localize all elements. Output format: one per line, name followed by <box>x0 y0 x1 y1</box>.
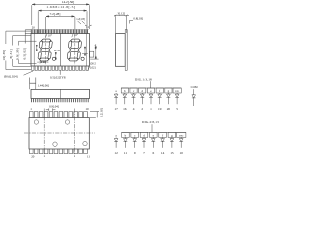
left dim 10[.39] <box>6 31 31 70</box>
svg-text:20: 20 <box>32 26 36 30</box>
digit 1 seven-segment outline <box>38 39 52 61</box>
svg-text:2: 2 <box>141 107 143 111</box>
pin detail box <box>30 78 36 84</box>
horizontal side view pin comb <box>32 99 89 103</box>
digit 1 rail <box>121 87 181 89</box>
svg-text:f: f <box>162 134 164 138</box>
svg-text:COM: COM <box>191 85 198 89</box>
digit 2 rail <box>122 131 186 133</box>
digit 1 segment boxes <box>121 88 128 93</box>
front view package body <box>31 34 90 67</box>
digit 1 centerline <box>45 35 47 65</box>
svg-text:1.2[.05]: 1.2[.05] <box>99 108 103 117</box>
svg-text:a: a <box>115 134 117 138</box>
svg-text:0.5[.02]TYP.: 0.5[.02]TYP. <box>50 75 66 79</box>
svg-text:16: 16 <box>123 107 127 111</box>
svg-text:11: 11 <box>86 25 89 29</box>
svg-text:f: f <box>159 89 161 93</box>
bottom view centerline v1 <box>43 109 45 158</box>
horizontal side view body <box>31 89 90 98</box>
svg-text:20: 20 <box>31 154 35 158</box>
bottom view bottom pin row <box>30 149 88 154</box>
dim 1.2[.05] bottom right <box>90 112 99 118</box>
dim 1.6X8=12.8[.5] pin row span <box>38 10 87 34</box>
dim arrows right of digit2 <box>84 47 85 55</box>
svg-text:a: a <box>115 89 117 93</box>
digit 2 segment boxes <box>122 132 130 137</box>
svg-text:c: c <box>134 134 136 138</box>
bottom view centerline h <box>24 132 95 134</box>
svg-text:19: 19 <box>158 107 162 111</box>
svg-text:11: 11 <box>124 151 128 155</box>
svg-text:1.2[.05]: 1.2[.05] <box>76 18 85 21</box>
svg-text:1.44[.06]: 1.44[.06] <box>38 84 49 88</box>
svg-text:e: e <box>153 134 155 138</box>
svg-text:b: b <box>125 134 127 138</box>
dim arrows near digit1 DP <box>55 52 56 59</box>
left dim 8[.31] <box>13 36 31 67</box>
right edge pin detail <box>90 51 94 57</box>
bottom view body <box>29 118 89 150</box>
horizontal side view divider <box>59 89 61 98</box>
hole bottom-right <box>83 141 87 145</box>
front view inner frame lines <box>34 34 86 67</box>
dim arrows left of digit1 <box>36 45 37 50</box>
front view center divider <box>59 34 61 67</box>
digit 1 decimal point <box>52 57 55 60</box>
front view top pin row <box>31 29 87 33</box>
svg-text:3[.12]: 3[.12] <box>117 12 125 16</box>
digit 2 segment diodes <box>114 137 183 147</box>
svg-text:d: d <box>143 134 145 138</box>
svg-text:14: 14 <box>161 151 165 155</box>
left dim 0.5[.02] <box>25 30 31 44</box>
svg-text:10: 10 <box>85 107 89 111</box>
digit 2 centerline <box>74 35 76 65</box>
svg-text:0.5[.02]: 0.5[.02] <box>23 48 27 60</box>
svg-text:17: 17 <box>114 107 118 111</box>
svg-text:DIG.1:3,18: DIG.1:3,18 <box>135 78 152 83</box>
svg-text:1: 1 <box>150 107 152 111</box>
svg-text:4: 4 <box>133 107 135 111</box>
svg-text:1.6X8=12.8[.5]: 1.6X8=12.8[.5] <box>46 5 75 9</box>
hole top-right <box>65 120 69 124</box>
digit 2 decimal point <box>81 57 84 60</box>
dim 7.2[.28] digit pitch <box>46 16 75 34</box>
hole top-left <box>34 120 38 124</box>
svg-text:9: 9 <box>134 151 136 155</box>
svg-text:20: 20 <box>167 107 171 111</box>
svg-text:7: 7 <box>143 151 145 155</box>
bottom view centerline v2 <box>73 109 75 158</box>
svg-text:Ø0.6[.024]: Ø0.6[.024] <box>4 75 18 79</box>
bottom view top pin row <box>30 112 88 118</box>
svg-text:5: 5 <box>176 107 178 111</box>
svg-text:10: 10 <box>180 151 184 155</box>
centerline dash between digits <box>54 49 60 51</box>
digit 2 seven-segment outline <box>67 39 81 61</box>
svg-text:12: 12 <box>114 151 118 155</box>
centerline dash digit2 right <box>82 53 89 55</box>
hole bottom-left <box>53 142 57 146</box>
svg-text:0.8[.03]: 0.8[.03] <box>133 16 143 20</box>
svg-text:11: 11 <box>87 154 90 158</box>
front view bottom pin row <box>32 66 89 70</box>
svg-text:10°: 10° <box>48 33 53 37</box>
svg-text:14.2[.56]: 14.2[.56] <box>62 0 74 4</box>
svg-text:b: b <box>124 89 126 93</box>
svg-text:g: g <box>168 89 170 93</box>
svg-text:0.9[.04]: 0.9[.04] <box>49 105 59 109</box>
digit 1 segment diodes <box>114 93 179 104</box>
side view body <box>115 34 125 67</box>
dim 14.2[.56] overall width <box>32 4 90 29</box>
svg-text:15: 15 <box>170 151 174 155</box>
left dim 9.9[.39] <box>19 41 37 63</box>
svg-text:9.9[.39]: 9.9[.39] <box>16 48 20 60</box>
svg-text:[.02]: [.02] <box>90 65 96 69</box>
svg-text:10[.39]: 10[.39] <box>2 50 6 61</box>
svg-text:DIG.2:8,13: DIG.2:8,13 <box>142 120 159 125</box>
svg-text:7.2[.28]: 7.2[.28] <box>50 12 61 16</box>
svg-text:6: 6 <box>152 151 154 155</box>
svg-text:8[.31]: 8[.31] <box>9 49 13 58</box>
svg-text:d: d <box>141 89 143 93</box>
svg-text:e: e <box>150 89 152 93</box>
svg-text:1: 1 <box>30 107 32 111</box>
svg-text:g: g <box>171 134 173 138</box>
dim arrows under digit1 <box>37 61 48 64</box>
side view pin strip <box>125 30 127 71</box>
svg-text:c: c <box>133 89 135 93</box>
